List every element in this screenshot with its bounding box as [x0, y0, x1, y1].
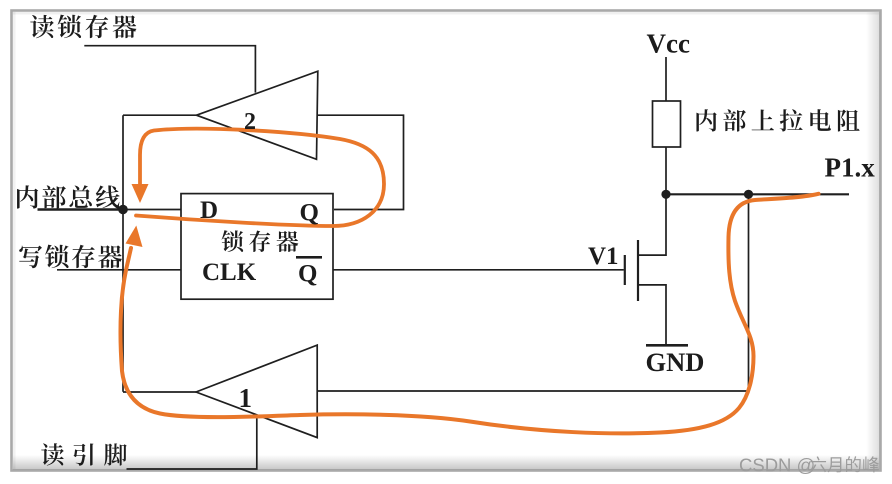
wire: buffer 1 output to left column: [123, 391, 196, 393]
svg-text:V1: V1: [588, 243, 619, 270]
label: read latch (du suo cun qi): [30, 15, 136, 39]
wire: resistor to P1.x line: [665, 147, 667, 194]
svg-text:1: 1: [239, 383, 253, 413]
transistor V1: channel bar: [637, 240, 639, 301]
buffer 1 (triangle, label 1): [196, 345, 317, 438]
wire: buffer 2 input from latch Q: [317, 115, 404, 209]
wire: buffer 1 input line from P1.x column: [317, 194, 748, 391]
svg-text:Q: Q: [298, 261, 317, 288]
svg-text:P1.x: P1.x: [825, 153, 876, 183]
wire: latch Qbar output to MOSFET gate: [333, 269, 624, 271]
transistor V1: source stub: [638, 285, 666, 345]
latch box U1: [181, 194, 333, 300]
arrowhead: read-pin loop into bus node: [126, 226, 143, 248]
arrowhead: read-latch loop into bus node: [132, 184, 149, 203]
transistor V1 (NMOS): gate bar: [624, 255, 626, 285]
wire: P1.x pin line: [666, 193, 849, 195]
wire: Vcc to pull-up resistor: [665, 57, 667, 101]
wire: buffer 2 output to internal bus column: [123, 114, 197, 116]
label: internal bus (nei bu zong xian): [17, 185, 120, 208]
wire: read-latch control to buffer 2: [84, 46, 255, 93]
svg-text:CLK: CLK: [202, 259, 257, 286]
buffer 2 (triangle, label 2): [197, 71, 318, 159]
svg-text:2: 2: [244, 109, 256, 135]
wire: bus node to latch D input: [123, 209, 181, 211]
label: latch (inside box): [222, 230, 299, 252]
wire: internal bus stub: [38, 208, 124, 211]
svg-text:D: D: [200, 197, 218, 224]
svg-text:Vcc: Vcc: [647, 29, 690, 59]
wire: left column (bus node down to buffer 1 output): [122, 115, 124, 392]
label: read pin: [41, 443, 127, 465]
svg-text:CSDN @: CSDN @: [739, 455, 815, 476]
svg-text:GND: GND: [646, 347, 705, 377]
wire: write-latch CLK line: [57, 269, 181, 271]
svg-text:Q: Q: [300, 200, 319, 227]
highlight path: read-pin loop (through buffer 1): [120, 194, 818, 434]
label: internal pull-up resistor: [696, 109, 859, 131]
resistor: internal pull-up: [653, 101, 681, 147]
label: write latch: [19, 245, 122, 269]
wire: read-pin tap to buffer 1: [127, 415, 257, 469]
highlight path: read-latch loop (through buffer 2): [136, 129, 384, 226]
transistor V1: drain stub: [638, 194, 666, 255]
node: P1.x read-pin junction: [744, 190, 753, 199]
node: resistor/P1.x junction: [661, 190, 670, 199]
node: internal bus junction: [118, 205, 128, 215]
ground symbol: [646, 344, 688, 347]
